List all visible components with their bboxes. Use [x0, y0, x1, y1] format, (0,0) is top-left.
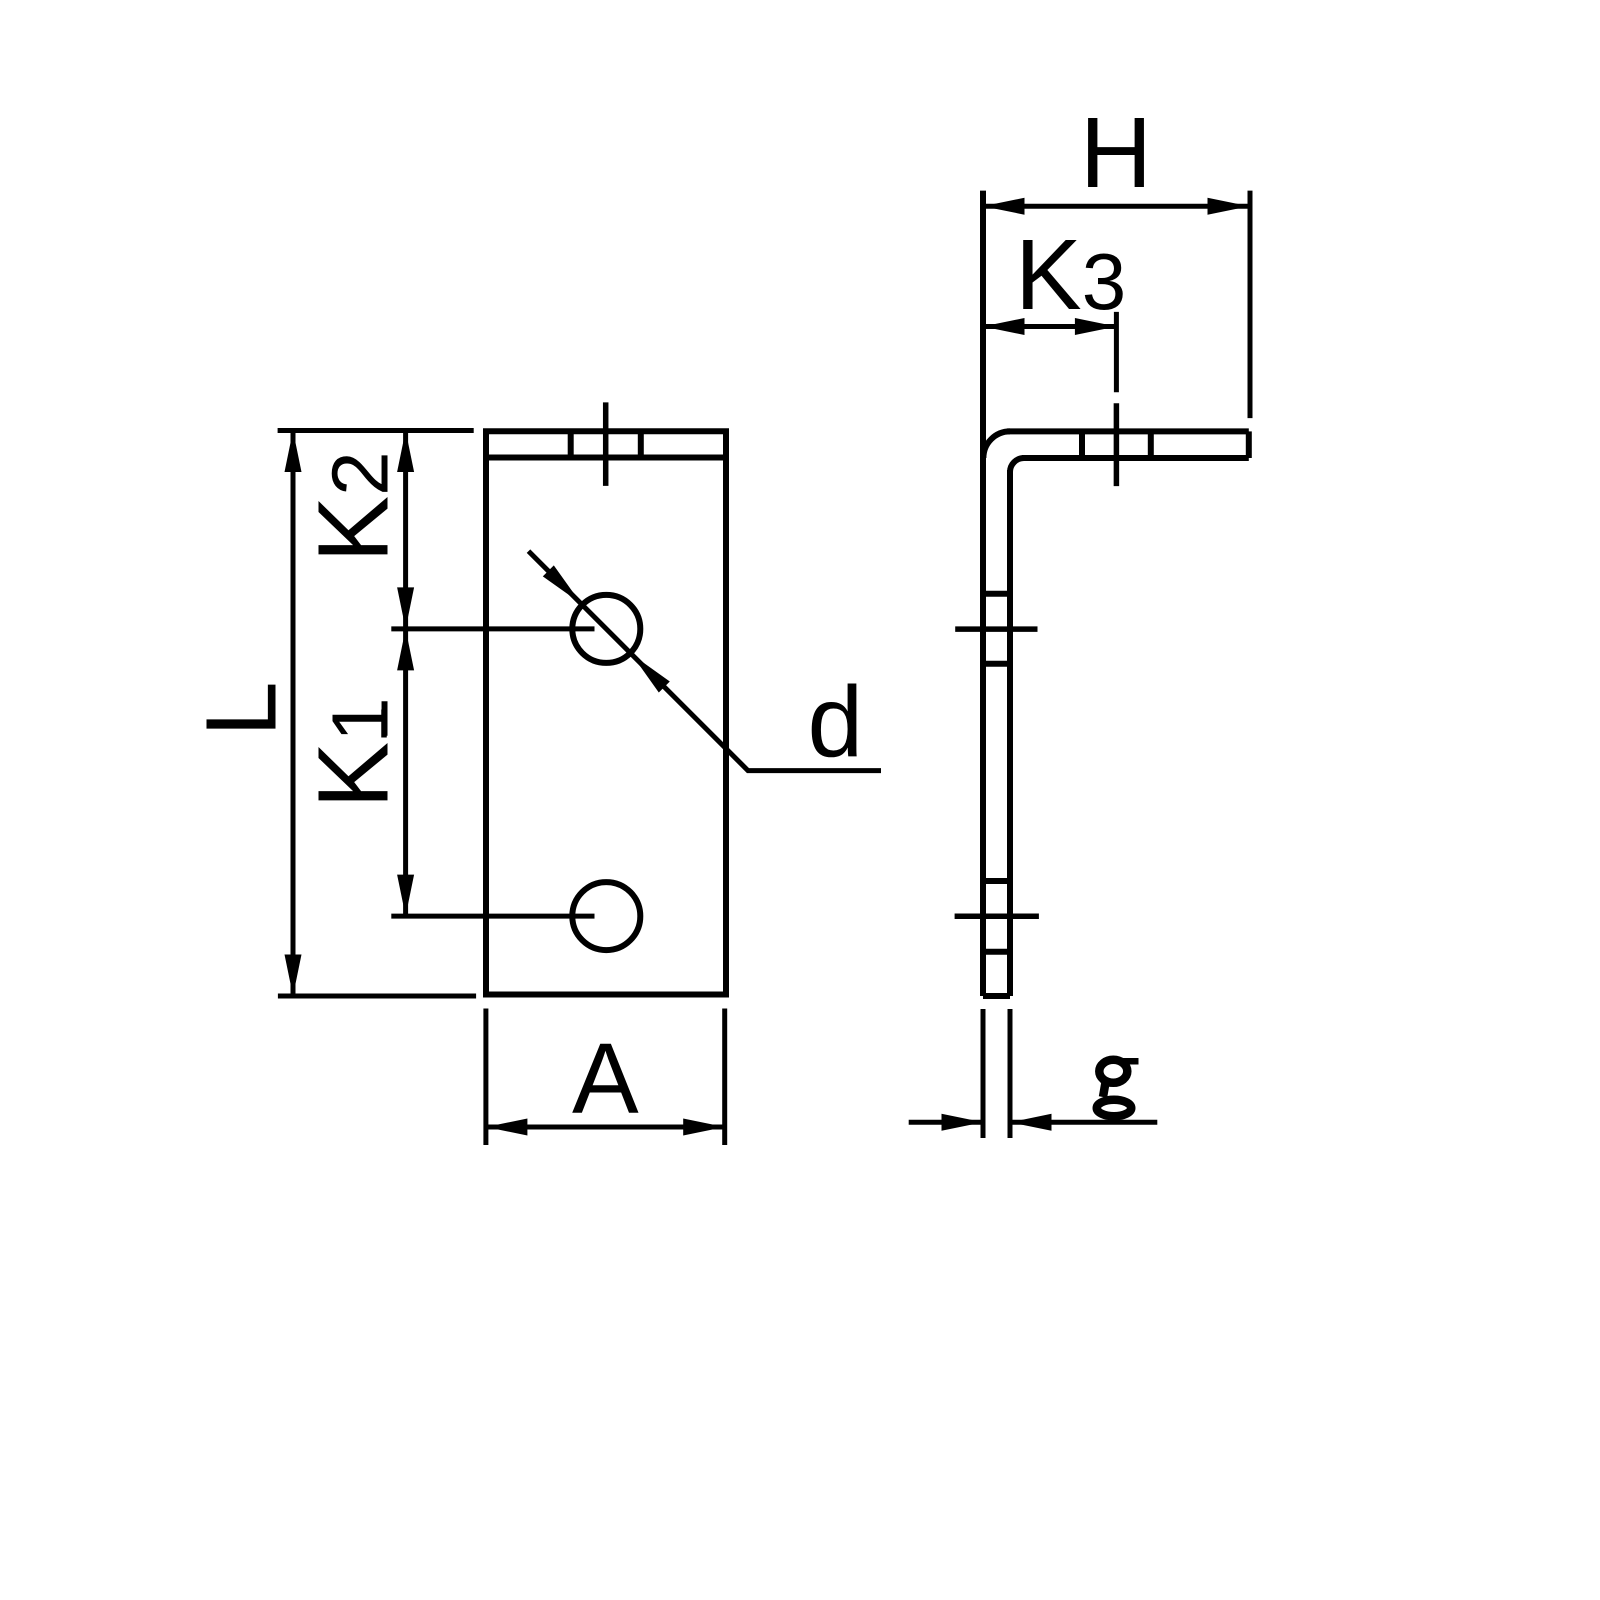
dimension H line [983, 204, 1249, 209]
extension line top [278, 428, 474, 433]
arrow A right [683, 1119, 725, 1136]
g extension right [1008, 1009, 1013, 1138]
dimension A extension left [483, 1009, 488, 1146]
arrow K3 right [1075, 318, 1117, 335]
arrow g right (points left) [1010, 1114, 1052, 1131]
label K1 digit foot serif [381, 710, 387, 738]
plate outline [486, 431, 726, 994]
hole 2 [572, 882, 640, 950]
dimension L line [291, 431, 296, 997]
arrow K2 bottom [397, 587, 414, 629]
hole 2 centerline / extension [391, 914, 594, 919]
hole 1 centerline / extension [391, 626, 594, 631]
arrow K1 bottom [397, 875, 414, 917]
hole 1 centerline [955, 626, 1037, 632]
flange hole centerline [603, 402, 609, 486]
outer edge / H left extension [980, 191, 986, 996]
flange bottom edge [1022, 455, 1249, 461]
svg-text:H: H [1080, 97, 1152, 209]
g dim line left part [909, 1120, 983, 1125]
hole 2 edge tick bottom [983, 949, 1010, 955]
arrow d upper (points to hole edge) [543, 565, 581, 603]
inner bend arc [1010, 458, 1024, 472]
svg-text:A: A [572, 1023, 639, 1135]
hole 2 edge tick top [983, 878, 1010, 884]
flange hole tick left [1079, 431, 1085, 458]
dimension K3 line [983, 324, 1116, 329]
flange hole centerline [1114, 403, 1120, 486]
arrow g left (points right) [942, 1114, 984, 1131]
arrow L top [285, 431, 302, 473]
svg-text:L: L [186, 681, 298, 737]
g extension left [981, 1009, 986, 1138]
dimension A extension right [722, 1009, 727, 1146]
extension line bottom [278, 994, 476, 999]
leader diagonal [529, 551, 882, 771]
flange hole edge tick left [568, 431, 574, 457]
label g [1097, 1060, 1139, 1116]
H right extension [1248, 191, 1253, 419]
arrow H left [983, 198, 1025, 215]
hole 1 [572, 595, 640, 663]
arrow K1 top [397, 629, 414, 671]
hole 2 centerline [955, 913, 1039, 919]
hole 1 edge tick bottom [983, 661, 1010, 667]
flange fold line [486, 455, 726, 461]
flange right end cap [1246, 431, 1252, 458]
arrow L bottom [285, 955, 302, 997]
hole 1 edge tick top [983, 591, 1010, 597]
arrow K2 top [397, 431, 414, 473]
flange top edge [1007, 428, 1249, 434]
arrow d lower (points to hole edge) [632, 654, 670, 692]
dimension K2 line [403, 431, 408, 629]
flange hole tick right [1148, 431, 1154, 458]
arrow K3 left [983, 318, 1025, 335]
leg inner edge [1007, 470, 1013, 996]
dimension A line [486, 1125, 725, 1130]
g dim line right part [1010, 1120, 1157, 1125]
K3 right extension (dashed centerline) [1114, 312, 1119, 392]
arrow A left [486, 1119, 528, 1136]
svg-text:d: d [808, 666, 864, 778]
arrow H right [1208, 198, 1250, 215]
dimension K1 line [403, 629, 408, 916]
flange hole edge tick right [638, 431, 644, 457]
leg bottom cap [983, 993, 1010, 999]
outer bend arc [983, 431, 1010, 458]
